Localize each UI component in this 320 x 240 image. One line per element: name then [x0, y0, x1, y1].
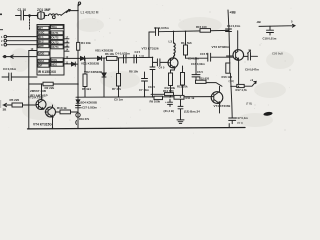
svg-text:R19 27k: R19 27k	[79, 117, 90, 121]
svg-text:DF: DF	[39, 64, 43, 68]
svg-text:L3: L3	[169, 40, 173, 44]
svg-text:(12) Bex.34: (12) Bex.34	[184, 109, 200, 113]
svg-text:5 30: 5 30	[139, 54, 145, 58]
svg-text:C4 0,033m: C4 0,033m	[115, 52, 130, 56]
svg-text:OUT3: OUT3	[52, 40, 59, 44]
svg-text:OUT1: OUT1	[52, 31, 59, 35]
svg-text:R9 100k: R9 100k	[150, 100, 161, 104]
svg-text:C9 0,047m: C9 0,047m	[245, 68, 259, 72]
svg-text:WT: WT	[39, 26, 43, 30]
svg-text:R10 680: R10 680	[163, 89, 174, 93]
svg-text:R17 4,7k: R17 4,7k	[236, 88, 248, 92]
svg-text:(7 B): (7 B)	[246, 102, 252, 106]
svg-text:SDA: SDA	[39, 59, 45, 63]
svg-text:C11 5: C11 5	[148, 85, 156, 89]
svg-text:L1 433,92 M: L1 433,92 M	[81, 11, 99, 15]
svg-text:C1 10: C1 10	[18, 8, 27, 12]
svg-text:R11 1k: R11 1k	[186, 96, 195, 100]
svg-text:R10 1k: R10 1k	[57, 106, 67, 110]
svg-text:R2 22k: R2 22k	[45, 86, 55, 90]
svg-text:R15 100: R15 100	[196, 25, 207, 29]
svg-text:0Y 8: 0Y 8	[237, 121, 243, 125]
svg-text:OUT2: OUT2	[52, 36, 59, 40]
svg-text:+9: +9	[250, 78, 254, 82]
svg-text:R6 10k: R6 10k	[105, 52, 114, 56]
svg-text:VT3 KT315: VT3 KT315	[28, 96, 44, 100]
svg-text:R4 10k: R4 10k	[81, 41, 91, 45]
svg-text:C18 0,01m: C18 0,01m	[263, 36, 277, 40]
svg-text:R5 220: R5 220	[10, 98, 20, 102]
svg-text:VDD: VDD	[39, 52, 45, 56]
svg-text:C4 5: C4 5	[159, 65, 165, 69]
svg-text:C6 5: C6 5	[197, 70, 203, 74]
svg-text:+C27 0,033m: +C27 0,033m	[81, 105, 98, 109]
svg-text:VT3 KT368A: VT3 KT368A	[212, 45, 230, 49]
svg-text:C15 5: C15 5	[200, 52, 208, 56]
svg-text:C8 0,047m: C8 0,047m	[154, 26, 169, 30]
svg-text:BD4 KD503B: BD4 KD503B	[81, 100, 97, 104]
svg-text:R8 10k: R8 10k	[129, 69, 138, 73]
svg-text:NEG: NEG	[52, 63, 58, 67]
svg-text:C4 5: C4 5	[135, 50, 141, 54]
svg-text:IN 2: IN 2	[39, 40, 44, 44]
svg-text:C3 0,01m: C3 0,01m	[3, 67, 17, 71]
svg-text:C16 0,02m: C16 0,02m	[191, 62, 205, 66]
svg-text:VD1 KD522B: VD1 KD522B	[81, 61, 100, 65]
svg-text:(31,4 B): (31,4 B)	[164, 109, 174, 113]
svg-text:C20 0u8: C20 0u8	[272, 52, 283, 56]
svg-text:OSC: OSC	[39, 31, 45, 35]
svg-text:C14 0,01m: C14 0,01m	[227, 24, 241, 28]
svg-text:IR K1500XX: IR K1500XX	[38, 70, 57, 74]
svg-text:ZQ1 3MF: ZQ1 3MF	[37, 8, 51, 12]
svg-text:R7 47k: R7 47k	[112, 87, 121, 91]
svg-text:(4B): (4B)	[229, 79, 235, 83]
svg-text:OUT4: OUT4	[52, 45, 59, 49]
svg-text:BPF: BPF	[39, 44, 45, 48]
svg-text:C17 0,1m: C17 0,1m	[236, 116, 249, 120]
svg-text:R5 9k1: R5 9k1	[82, 87, 91, 91]
svg-text:R15 620: R15 620	[199, 77, 210, 81]
svg-text:VT2 KT3126: VT2 KT3126	[142, 47, 159, 51]
svg-text:TDA: TDA	[52, 25, 57, 29]
svg-text:IN 1: IN 1	[39, 35, 44, 39]
svg-text:R14 5k6: R14 5k6	[181, 41, 192, 45]
svg-text:VT4 KT315B: VT4 KT315B	[214, 104, 231, 108]
svg-text:C5 1m: C5 1m	[114, 98, 123, 102]
svg-text:+9B: +9B	[230, 10, 237, 14]
svg-text:+: +	[165, 100, 167, 104]
svg-text:VD2 KD522B: VD2 KD522B	[84, 70, 103, 74]
svg-text:VT4 KT315G: VT4 KT315G	[33, 123, 52, 127]
svg-text:POS: POS	[52, 58, 58, 62]
svg-text:-9B: -9B	[256, 20, 261, 24]
